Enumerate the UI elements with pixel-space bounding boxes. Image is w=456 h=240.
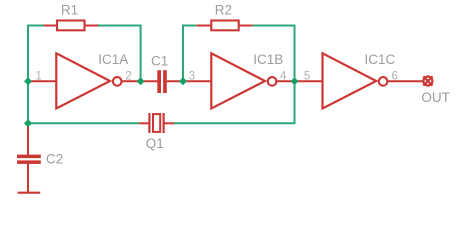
wire node 1 to IC1A input (red) xyxy=(28,80,57,82)
wire IC1A output to node 2 (red) xyxy=(122,80,141,82)
node 1 junction xyxy=(24,77,32,85)
wire node 2 to C1 (red) xyxy=(141,80,158,82)
svg-text:1: 1 xyxy=(36,70,42,82)
svg-text:IC1A: IC1A xyxy=(98,52,128,67)
wire R1 left lead loop down to node 1 (green) xyxy=(28,26,44,124)
svg-text:Q1: Q1 xyxy=(146,136,164,151)
node A junction (C2 / Q1) xyxy=(24,119,32,127)
wire node 3 to IC1B input (red) xyxy=(183,80,212,82)
svg-text:C2: C2 xyxy=(46,151,63,166)
crystal Q1 xyxy=(139,113,174,133)
node 2 junction xyxy=(137,77,145,85)
node 3 junction xyxy=(179,77,187,85)
svg-text:R2: R2 xyxy=(215,2,232,17)
svg-text:OUT: OUT xyxy=(421,90,450,105)
svg-text:2: 2 xyxy=(125,70,131,82)
inverter IC1B xyxy=(211,53,276,108)
ground xyxy=(18,192,41,194)
wire R2 right lead down through node 5 to Q1 right (green) xyxy=(174,26,295,124)
resistor R1 xyxy=(44,21,99,31)
node 5 junction xyxy=(291,77,299,85)
svg-text:3: 3 xyxy=(189,70,195,82)
svg-text:C1: C1 xyxy=(151,54,168,69)
svg-text:IC1C: IC1C xyxy=(365,52,396,67)
wire node A to Q1 left (green) xyxy=(28,122,139,124)
wire IC1C output to OUT terminal (red) xyxy=(388,80,424,82)
wire C1 to node 3 (red) xyxy=(167,80,183,82)
svg-text:R1: R1 xyxy=(61,2,78,17)
inverter IC1C xyxy=(323,53,388,108)
capacitor C2 xyxy=(17,123,41,192)
wire IC1B output to node 5 (red) xyxy=(277,80,295,82)
resistor R2 xyxy=(196,21,252,31)
svg-text:6: 6 xyxy=(392,70,398,82)
wire R1 right lead down to node 2 (green) xyxy=(98,26,141,82)
capacitor C1 xyxy=(157,70,167,93)
inverter IC1A xyxy=(56,53,121,108)
wire R2 left lead down to node 3 (green) xyxy=(183,26,196,82)
svg-text:5: 5 xyxy=(304,70,310,82)
svg-text:4: 4 xyxy=(280,70,287,82)
OUT terminal xyxy=(423,76,432,85)
wire node 5 to IC1C input (red) xyxy=(295,80,324,82)
svg-text:IC1B: IC1B xyxy=(253,52,283,67)
